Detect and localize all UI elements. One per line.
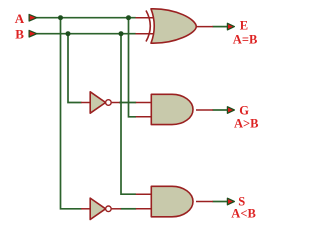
wire: bottom NOT output to AND gate U3 bottom input	[121, 208, 137, 210]
NOT gate U4 bubble	[106, 100, 112, 106]
pin stubs of NOT U4 (middle)	[81, 102, 120, 104]
svg-text:A<B: A<B	[231, 207, 256, 221]
svg-text:E: E	[240, 19, 248, 33]
output arrow E	[227, 23, 234, 30]
AND gate U2 (A>B)	[151, 94, 193, 124]
svg-text:G: G	[239, 104, 249, 118]
XOR gate U1 extra input arc	[146, 11, 150, 42]
node: junction dot on B line at x=68	[66, 31, 71, 36]
node: junction dot on A line at x=128.5	[126, 15, 131, 20]
wire: vertical from A at x=60.5 down to bottom NOT input	[61, 18, 82, 209]
input arrow A	[29, 14, 37, 21]
wire: AND U3 output to arrow S	[213, 201, 228, 203]
AND gate U3 (A<B)	[151, 186, 193, 217]
output arrow S	[227, 198, 234, 205]
NOT gate U4 (middle) triangle	[90, 92, 105, 113]
svg-text:B: B	[15, 27, 24, 42]
svg-text:A>B: A>B	[234, 117, 259, 131]
NOT gate U5 bubble	[106, 206, 112, 212]
NOT gate U5 (bottom) triangle	[90, 198, 105, 219]
input arrow B	[29, 30, 37, 37]
output arrow G	[227, 107, 234, 114]
pin stubs of AND U2	[136, 103, 213, 117]
pin stubs of XOR U1 inputs	[136, 18, 214, 34]
wire: input B horizontal net	[37, 33, 136, 35]
wire: XOR U1 output to arrow E	[213, 26, 228, 28]
svg-text:A=B: A=B	[233, 33, 257, 47]
wire: input A horizontal net	[37, 17, 136, 19]
wire: vertical from A at x=128.5 down to middle AND bottom input	[129, 18, 137, 117]
wire: vertical from B at x=121 down to bottom AND top input	[121, 34, 136, 195]
XOR gate U1 body	[151, 9, 196, 43]
node: junction dot on B line at x=121	[119, 31, 124, 36]
wire: middle NOT output to AND gate U2 top input	[119, 102, 136, 104]
node: junction dot on A line at x=60.5	[58, 15, 63, 20]
wire: vertical from B at x=68 down to middle NOT input	[68, 34, 82, 103]
svg-text:A: A	[15, 11, 25, 26]
pin stubs of NOT U5 (bottom)	[81, 208, 121, 210]
pin stubs of AND U3	[136, 194, 213, 209]
wire: AND U2 output to arrow G	[213, 109, 228, 111]
